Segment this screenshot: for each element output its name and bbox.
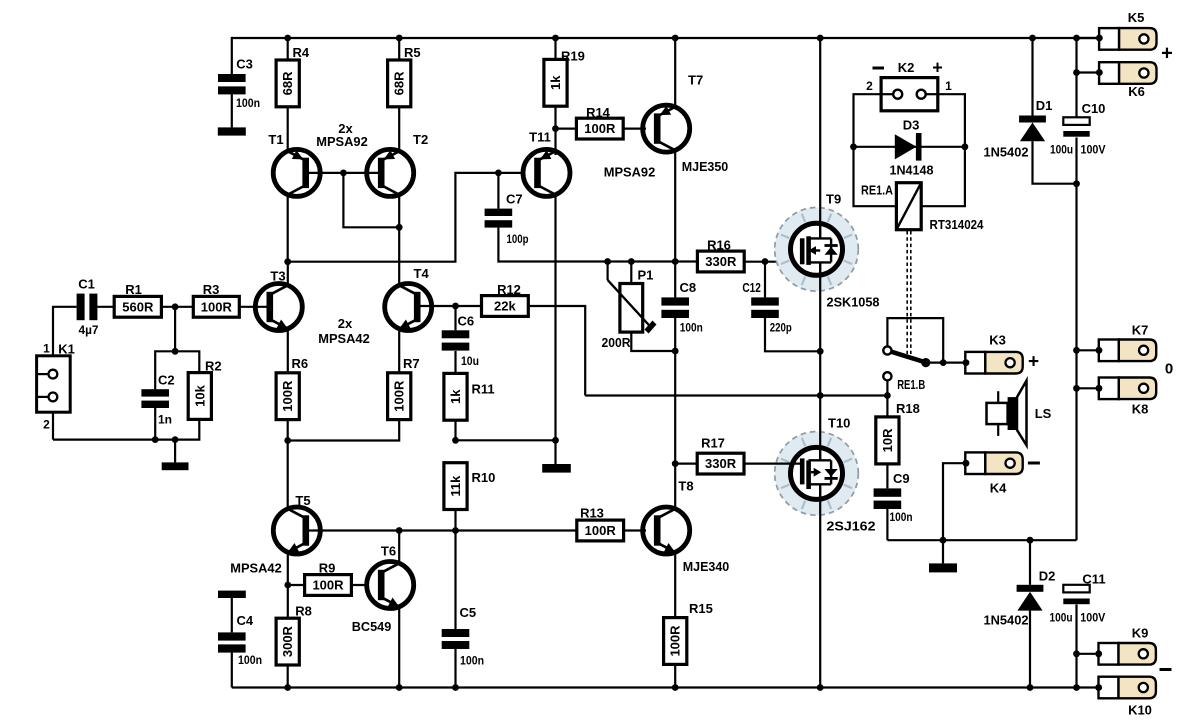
node R17/T8 collector	[672, 460, 679, 467]
wire R17 to T10 gate	[744, 463, 802, 465]
node R11/R10 junction	[452, 437, 459, 444]
node R10/C5 bias	[452, 527, 459, 534]
value 100n (C8)	[680, 320, 703, 334]
label C11	[1082, 572, 1105, 587]
label 0 (supply 0)	[1165, 361, 1173, 378]
wire C9 bottom	[886, 509, 888, 540]
label C12	[742, 280, 761, 295]
svg-text:1N5402: 1N5402	[984, 613, 1029, 628]
node C8/P1 bottom	[672, 348, 679, 355]
wire C3 from +V rail	[231, 37, 233, 74]
svg-text:R1: R1	[125, 282, 142, 297]
capacitor C3	[218, 74, 246, 127]
node K9 tap	[1073, 650, 1080, 657]
wire ground stub input	[174, 440, 176, 463]
svg-text:11k: 11k	[448, 475, 463, 497]
label K8	[1132, 402, 1149, 417]
wire D1 bottom	[1033, 141, 1077, 183]
svg-text:C8: C8	[680, 280, 697, 295]
trimmer P1 wiper arm	[608, 280, 657, 334]
svg-text:R8: R8	[295, 604, 312, 619]
resistor R6	[276, 373, 299, 420]
connector K2	[881, 78, 938, 111]
node P1 wiper tap	[604, 258, 611, 265]
wire R15 bottom	[674, 664, 676, 687]
pin 2 (K2)	[866, 79, 873, 93]
label T7	[688, 73, 703, 88]
svg-text:RT314024: RT314024	[930, 217, 985, 232]
label MJE350	[682, 159, 729, 174]
transistor T7	[643, 105, 690, 152]
wire T11 collector down	[554, 195, 556, 440]
svg-text:1: 1	[43, 342, 50, 356]
transistor T4	[385, 284, 432, 331]
label K2	[898, 60, 915, 75]
wire C10 top	[1075, 38, 1077, 117]
resistor R15	[664, 618, 687, 665]
svg-text:D1: D1	[1036, 98, 1053, 113]
value 10u (C6)	[461, 354, 479, 368]
label 2SJ162	[827, 519, 876, 534]
capacitor C1	[77, 294, 98, 321]
wire RE1.B down	[886, 381, 888, 396]
wire R18 to C9	[886, 464, 888, 489]
node K5 terminal	[1096, 35, 1103, 42]
wire R10 bottom	[454, 510, 456, 531]
svg-text:10u: 10u	[461, 354, 479, 368]
node C11 rail	[1073, 684, 1080, 691]
transistor T3	[255, 284, 302, 331]
svg-text:2: 2	[866, 79, 873, 93]
wire T4 emitter down	[398, 329, 400, 373]
label R17	[701, 436, 725, 451]
label R2	[205, 359, 222, 374]
svg-text:C9: C9	[893, 471, 910, 486]
wire C5 top	[454, 531, 456, 630]
label K3	[989, 333, 1006, 348]
minus sign (supply -)	[1160, 668, 1172, 671]
svg-text:C12: C12	[742, 280, 761, 295]
svg-text:C2: C2	[158, 373, 175, 388]
speaker LS	[987, 381, 1027, 446]
resistor R13	[577, 520, 624, 541]
label C3	[236, 57, 253, 72]
wire K1 pin1 to C1	[53, 307, 77, 356]
resistor R11	[444, 373, 467, 420]
node R15 rail	[672, 684, 679, 691]
wire K1 pin2 down	[52, 412, 54, 439]
svg-text:D2: D2	[1039, 569, 1056, 584]
connector K7	[1099, 340, 1156, 362]
resistor R1	[114, 296, 161, 317]
resistor R2	[188, 373, 211, 420]
label D2	[1039, 569, 1056, 584]
node K4 ground	[940, 537, 947, 544]
label T11	[529, 130, 551, 145]
value 4µ7 (C1)	[79, 323, 99, 337]
value 1N4148 (D3)	[890, 163, 934, 178]
svg-text:C6: C6	[458, 314, 475, 329]
label K10	[1128, 703, 1152, 718]
label MPSA92 (T1/T2)	[316, 134, 368, 149]
node T2 collector junction	[396, 224, 403, 231]
mosfet T10	[775, 432, 859, 516]
wire junction down to T5	[287, 441, 289, 509]
value 100n (C3)	[236, 96, 260, 110]
svg-text:K2: K2	[898, 60, 915, 75]
node C2 bottom	[152, 436, 159, 443]
wire R14 to T7 base	[623, 128, 646, 130]
wire T6 collector up	[398, 531, 400, 564]
label RE1.A	[861, 183, 894, 198]
wire K2 pin1 loop	[921, 94, 965, 206]
wire node to R14	[556, 128, 577, 130]
wire R2 bottom	[53, 419, 199, 439]
label K4	[990, 480, 1007, 495]
node K6 terminal dot	[1096, 69, 1103, 76]
wire R19 to node	[554, 106, 556, 128]
minus sign (K2)	[873, 67, 885, 70]
resistor R9	[305, 575, 352, 596]
capacitor C12	[751, 297, 779, 318]
label RE1.B	[897, 377, 925, 392]
svg-text:T6: T6	[381, 543, 396, 558]
wire T7 collector down	[674, 150, 676, 262]
wire VAS line	[556, 260, 698, 262]
ground input	[162, 462, 189, 470]
svg-text:100R: 100R	[668, 625, 683, 657]
value 100n (C5)	[460, 654, 484, 668]
label RT314024	[930, 217, 985, 232]
svg-text:R14: R14	[586, 105, 611, 120]
label R4	[293, 45, 310, 60]
wire D1 top	[1031, 38, 1033, 116]
svg-text:T5: T5	[295, 493, 310, 508]
svg-text:100u: 100u	[1050, 611, 1073, 625]
wire T9 drain to +V	[819, 38, 821, 225]
label MJE340	[683, 559, 730, 574]
value 100n (C9)	[890, 510, 913, 524]
svg-text:100n: 100n	[680, 320, 703, 334]
plus sign (K3)	[1028, 352, 1039, 373]
svg-text:MPSA42: MPSA42	[318, 331, 370, 346]
svg-text:C10: C10	[1082, 101, 1106, 116]
svg-text:+: +	[1028, 352, 1039, 373]
pin 1 (K1)	[43, 342, 50, 356]
value 100u (C11)	[1050, 611, 1073, 625]
svg-text:10R: 10R	[880, 428, 895, 452]
wire junction to C2	[155, 351, 175, 389]
svg-text:R16: R16	[707, 238, 731, 253]
connector K4	[965, 452, 1022, 474]
label R13	[580, 506, 604, 521]
svg-text:2SK1058: 2SK1058	[827, 295, 880, 310]
svg-text:100p: 100p	[507, 232, 529, 246]
value 100n (C4)	[238, 653, 262, 667]
label C2	[158, 373, 175, 388]
node T4 base/R12/C6	[452, 303, 459, 310]
svg-text:R15: R15	[689, 601, 713, 616]
label R19	[561, 49, 585, 64]
wire T4 base to node	[414, 305, 456, 307]
minus sign (K4)	[1028, 462, 1040, 465]
transistor T11	[523, 149, 570, 196]
svg-text:T9: T9	[826, 192, 841, 207]
node output/RE1.B/R18	[884, 392, 891, 399]
wire C5 bottom	[454, 649, 456, 688]
svg-text:560R: 560R	[122, 299, 154, 314]
connector K5	[1099, 28, 1156, 50]
wire D2 bottom	[1029, 611, 1031, 688]
node T9 drain rail	[817, 35, 824, 42]
capacitor C8	[661, 297, 689, 318]
wire P1 wiper	[606, 262, 608, 281]
diode D2	[1017, 585, 1044, 611]
label K5	[1128, 10, 1145, 25]
wire C7 bottom to VAS line	[498, 228, 555, 262]
svg-text:330R: 330R	[705, 456, 737, 471]
label C9	[893, 471, 910, 486]
svg-text:T4: T4	[414, 266, 430, 281]
wire C6 top	[454, 306, 456, 330]
svg-text:200R: 200R	[602, 336, 631, 350]
svg-text:4µ7: 4µ7	[79, 323, 99, 337]
wire R1 to R3	[161, 306, 193, 308]
svg-text:R12: R12	[497, 282, 521, 297]
open bar above C4	[218, 591, 246, 598]
wire C8 top	[674, 262, 676, 298]
svg-text:K6: K6	[1128, 84, 1145, 99]
svg-text:T3: T3	[270, 269, 285, 284]
wire C2 bottom	[154, 408, 156, 440]
node D2 top	[1027, 537, 1034, 544]
svg-text:100n: 100n	[460, 654, 484, 668]
svg-text:R5: R5	[404, 45, 421, 60]
label R12	[497, 282, 521, 297]
value 100u (C10)	[1050, 143, 1073, 157]
svg-text:D3: D3	[903, 118, 920, 133]
svg-text:100R: 100R	[585, 523, 617, 538]
svg-text:1k: 1k	[548, 75, 563, 90]
label R11	[472, 382, 495, 397]
transistor T2	[367, 149, 414, 196]
wire T11 emitter up	[554, 129, 556, 155]
wire top +V rail	[232, 37, 1100, 39]
node R1/R3 junction	[172, 303, 179, 310]
node K7 terminal	[1096, 347, 1103, 354]
node K10 terminal dot	[1095, 684, 1102, 691]
label MPSA42 (T5)	[230, 561, 282, 576]
svg-text:R2: R2	[205, 359, 222, 374]
svg-text:K9: K9	[1132, 626, 1149, 641]
node R19 top rail	[552, 35, 559, 42]
value 200R (P1)	[602, 336, 631, 350]
wire C4 top	[231, 598, 233, 632]
svg-text:100n: 100n	[238, 653, 262, 667]
label R3	[203, 282, 220, 297]
wire R6 bottom	[287, 420, 289, 441]
label LS	[1035, 406, 1052, 421]
capacitor C5	[442, 629, 470, 649]
wire R8 bottom	[287, 665, 289, 688]
node C8/T7 on VAS line	[672, 258, 679, 265]
wire T1 collector down	[287, 195, 289, 262]
node R4 top rail	[284, 35, 291, 42]
svg-text:C11: C11	[1082, 572, 1105, 587]
value 100V (C11)	[1080, 611, 1105, 625]
capacitor C2	[141, 389, 169, 408]
node K8 terminal	[1096, 385, 1103, 392]
label T2	[413, 132, 428, 147]
label R18	[896, 401, 920, 416]
wire junction down	[174, 307, 176, 352]
svg-text:10k: 10k	[192, 384, 207, 406]
resistor R8	[276, 618, 299, 665]
plus sign (supply +)	[1161, 43, 1173, 65]
svg-text:R18: R18	[896, 401, 920, 416]
pin 1 (K2)	[945, 79, 952, 93]
node T1/T2 bases	[340, 170, 347, 177]
label T3	[270, 269, 285, 284]
svg-text:330R: 330R	[705, 254, 737, 269]
node K5 terminal dot	[1096, 35, 1103, 42]
svg-text:100V: 100V	[1080, 611, 1105, 625]
wire C4 bottom	[231, 652, 233, 687]
wire R18 top	[886, 396, 888, 417]
wire base node to T2 collector	[343, 173, 399, 227]
node output/T9/T10	[817, 392, 824, 399]
node R8 rail	[284, 684, 291, 691]
label P1	[638, 268, 654, 283]
node K6 terminal	[1096, 69, 1103, 76]
svg-text:LS: LS	[1035, 406, 1052, 421]
wire K2 pin2 loop	[854, 94, 897, 206]
wire T3 emitter down	[287, 329, 289, 373]
svg-text:2SJ162: 2SJ162	[827, 519, 876, 534]
wire T8 emitter down	[674, 553, 676, 618]
wire collector node to T11 base	[288, 173, 523, 262]
label R14	[586, 105, 611, 120]
resistor R5	[388, 60, 411, 107]
svg-text:1k: 1k	[448, 389, 463, 404]
connector K6	[1099, 62, 1156, 84]
node R19/R14/T11	[552, 125, 559, 132]
svg-text:T11: T11	[529, 130, 551, 145]
svg-text:T8: T8	[678, 479, 693, 494]
wire node to R12	[456, 305, 482, 307]
svg-text:MPSA92: MPSA92	[316, 134, 368, 149]
wire D2 top	[1029, 540, 1031, 585]
label K1	[58, 342, 75, 357]
wire R17 left	[675, 463, 697, 465]
label R16	[707, 238, 731, 253]
svg-text:T1: T1	[268, 132, 283, 147]
connector K1	[37, 356, 71, 412]
wire C8 bottom	[674, 318, 676, 351]
label C8	[680, 280, 697, 295]
svg-text:K10: K10	[1128, 703, 1152, 718]
svg-text:R3: R3	[203, 282, 220, 297]
wire C12 top	[764, 262, 766, 298]
wire R12 to output line	[528, 306, 585, 396]
wire C7 top	[497, 173, 499, 209]
wire 0V line	[887, 539, 1076, 541]
svg-text:K7: K7	[1132, 323, 1149, 338]
label T9	[826, 192, 841, 207]
wire P1 bottom to C8 bottom	[631, 332, 675, 351]
wire R3 to T3 base	[239, 306, 272, 308]
svg-text:MPSA42: MPSA42	[230, 561, 282, 576]
svg-text:C1: C1	[78, 277, 95, 292]
wire junction to T11 collector	[456, 439, 556, 441]
resistor R10	[444, 463, 467, 510]
wire T9 source down	[819, 274, 821, 396]
wire R11 bottom	[454, 420, 456, 440]
wire C10 bottom / 0V drop	[1075, 138, 1077, 541]
node K3 terminal	[963, 359, 970, 366]
svg-text:R4: R4	[293, 45, 310, 60]
capacitor C9	[874, 488, 902, 509]
wire T10 source up	[819, 396, 821, 449]
node D3 anode	[850, 143, 857, 150]
label R10	[472, 470, 496, 485]
wire K8 stub	[1077, 387, 1100, 389]
svg-text:C5: C5	[460, 605, 477, 620]
label C6	[458, 314, 475, 329]
svg-text:100n: 100n	[236, 96, 260, 110]
svg-text:R17: R17	[701, 436, 725, 451]
transistor T6	[367, 562, 414, 609]
svg-text:RE1.A: RE1.A	[861, 183, 894, 198]
connector K8	[1099, 378, 1156, 400]
wire T3 collector up	[287, 262, 289, 285]
svg-text:RE1.B: RE1.B	[897, 377, 925, 392]
mosfet T9	[775, 208, 859, 292]
node K8 rail	[1073, 385, 1080, 392]
svg-text:100n: 100n	[890, 510, 913, 524]
resistor R3	[193, 296, 239, 317]
wire bias line T5 base to R13	[303, 529, 577, 531]
wire C12 bottom to T9 source	[765, 318, 820, 351]
wire K4 to ground line	[943, 463, 966, 540]
label 2x (MPSA92)	[338, 121, 353, 136]
label 2SK1058	[827, 295, 880, 310]
diode D1	[1019, 116, 1046, 142]
node T6 collector bias	[396, 527, 403, 534]
node R5 top rail	[396, 35, 403, 42]
node D2 rail	[1027, 684, 1034, 691]
node K7 rail	[1073, 347, 1080, 354]
node T5 emitter/R9	[284, 582, 291, 589]
wire T1 base to T2 base	[303, 172, 382, 174]
wire T8 collector up	[674, 464, 676, 508]
svg-text:100R: 100R	[201, 299, 233, 314]
relay coil RE1.A	[896, 183, 921, 230]
connector K10	[1099, 677, 1156, 699]
wire junction to R2	[175, 351, 199, 372]
wire ground stub VAS	[554, 440, 556, 464]
svg-text:BC549: BC549	[352, 619, 392, 634]
node K8 terminal dot	[1096, 385, 1103, 392]
svg-text:22k: 22k	[494, 299, 516, 314]
resistor R7	[388, 373, 411, 420]
node D3 cathode	[962, 143, 969, 150]
label MPSA92 (T11)	[604, 164, 656, 179]
capacitor C6	[442, 330, 470, 350]
node C5 rail	[452, 684, 459, 691]
wire T7 emitter to +V	[674, 38, 676, 107]
label 2x (MPSA42)	[338, 316, 353, 331]
